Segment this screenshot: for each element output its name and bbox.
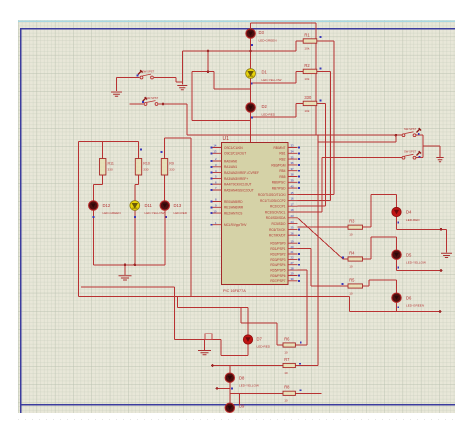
svg-text:36: 36 [291, 161, 295, 165]
svg-text:10: 10 [349, 264, 353, 268]
svg-text:RB5: RB5 [279, 175, 285, 179]
svg-text:RC7/RX/DT: RC7/RX/DT [269, 234, 286, 238]
svg-text:R7: R7 [284, 357, 290, 362]
svg-text:R8: R8 [284, 385, 290, 390]
svg-text:LED-RED: LED-RED [262, 113, 276, 117]
svg-text:SW-SPST: SW-SPST [404, 127, 417, 131]
svg-text:LED-RED: LED-RED [257, 345, 271, 349]
svg-text:10: 10 [284, 399, 288, 403]
svg-text:18: 18 [291, 208, 295, 212]
svg-text:R6: R6 [284, 336, 290, 341]
svg-text:LED-GREEN: LED-GREEN [103, 211, 121, 215]
svg-text:24: 24 [291, 220, 295, 224]
svg-text:D12: D12 [103, 203, 111, 208]
svg-text:RB1: RB1 [279, 152, 285, 156]
svg-text:RA5/AN4/SS/C2OUT: RA5/AN4/SS/C2OUT [224, 188, 254, 192]
svg-text:10: 10 [213, 209, 217, 213]
svg-text:D5: D5 [406, 253, 412, 258]
svg-text:RA3/AN3/VREF+: RA3/AN3/VREF+ [224, 177, 248, 181]
svg-text:RA2/AN2/VREF-/CVREF: RA2/AN2/VREF-/CVREF [224, 171, 259, 175]
svg-text:RC4/SDI/SDA: RC4/SDI/SDA [266, 216, 287, 220]
svg-text:OSC2/CLKOUT: OSC2/CLKOUT [224, 152, 246, 156]
svg-text:RD1/PSP1: RD1/PSP1 [270, 247, 285, 251]
svg-text:R4: R4 [349, 250, 355, 255]
svg-text:14: 14 [213, 144, 217, 148]
svg-text:D7: D7 [257, 336, 263, 341]
svg-text:RB6/PGC: RB6/PGC [272, 181, 287, 185]
svg-text:RD2/PSP2: RD2/PSP2 [270, 252, 285, 256]
svg-text:19: 19 [291, 239, 295, 243]
svg-text:D8: D8 [239, 376, 245, 381]
svg-text:10k: 10k [304, 109, 309, 113]
svg-text:RB0/INT: RB0/INT [273, 146, 285, 150]
svg-text:RB4: RB4 [279, 169, 285, 173]
svg-text:RC0/T1OSO/T1CKI: RC0/T1OSO/T1CKI [258, 193, 286, 197]
svg-text:21: 21 [291, 250, 295, 254]
svg-text:RB7/PGD: RB7/PGD [272, 187, 287, 191]
svg-text:D3: D3 [259, 30, 265, 35]
svg-text:D4: D4 [406, 210, 412, 215]
svg-text:28: 28 [291, 266, 295, 270]
svg-text:23: 23 [291, 214, 295, 218]
svg-text:22: 22 [291, 256, 295, 260]
svg-text:D2: D2 [262, 104, 268, 109]
svg-text:10: 10 [284, 371, 288, 375]
svg-text:34: 34 [291, 150, 295, 154]
svg-text:RC6/TX/CK: RC6/TX/CK [269, 228, 286, 232]
svg-text:RB2: RB2 [279, 158, 285, 162]
svg-text:LED-RED: LED-RED [406, 218, 420, 222]
svg-text:10k: 10k [304, 46, 309, 50]
svg-text:17: 17 [291, 202, 295, 206]
svg-text:RC5/SDO: RC5/SDO [272, 222, 287, 226]
svg-text:16: 16 [291, 197, 295, 201]
svg-text:LED-YELLOW: LED-YELLOW [145, 211, 165, 215]
svg-text:LED-GREEN: LED-GREEN [406, 304, 424, 308]
svg-text:R3: R3 [349, 219, 355, 224]
svg-text:10: 10 [284, 350, 288, 354]
svg-text:35: 35 [291, 155, 295, 159]
svg-text:330: 330 [304, 95, 312, 100]
svg-text:R9: R9 [169, 162, 174, 166]
svg-text:D11: D11 [145, 203, 153, 208]
svg-text:13: 13 [213, 150, 217, 154]
svg-text:RD0/PSP0: RD0/PSP0 [270, 242, 285, 246]
svg-text:40: 40 [291, 184, 295, 188]
svg-text:26: 26 [291, 231, 295, 235]
svg-text:R10: R10 [143, 162, 150, 166]
svg-text:RD3/PSP3: RD3/PSP3 [270, 258, 285, 262]
svg-text:330: 330 [143, 168, 148, 172]
svg-text:RC2/CCP1: RC2/CCP1 [270, 205, 286, 209]
svg-text:U1: U1 [223, 136, 230, 142]
svg-text:27: 27 [291, 261, 295, 265]
svg-text:10k: 10k [304, 77, 309, 81]
svg-text:D9: D9 [239, 404, 245, 409]
svg-text:RE1/AN6/WR: RE1/AN6/WR [224, 206, 244, 210]
svg-text:SW-SPST: SW-SPST [404, 150, 417, 154]
svg-text:LED-YELLOW: LED-YELLOW [239, 384, 259, 388]
svg-text:10: 10 [349, 233, 353, 237]
svg-text:D13: D13 [174, 203, 182, 208]
svg-text:20: 20 [291, 245, 295, 249]
svg-text:RA0/AN0: RA0/AN0 [224, 159, 237, 163]
svg-text:LED-YELLOW: LED-YELLOW [406, 261, 426, 265]
svg-text:37: 37 [291, 167, 295, 171]
svg-text:R2: R2 [304, 63, 310, 68]
svg-text:RE2/AN7/CS: RE2/AN7/CS [224, 212, 242, 216]
svg-text:10: 10 [349, 291, 353, 295]
svg-text:LED-YELLOW: LED-YELLOW [262, 78, 282, 82]
svg-text:R11: R11 [108, 162, 114, 166]
svg-text:LED-RED: LED-RED [174, 211, 188, 215]
svg-text:33: 33 [291, 144, 295, 148]
svg-text:D6: D6 [406, 296, 412, 301]
svg-text:RC1/T1OSI/CCP2: RC1/T1OSI/CCP2 [260, 199, 286, 203]
svg-text:SW-SPST: SW-SPST [142, 69, 155, 73]
svg-text:SW-SPST: SW-SPST [146, 96, 159, 100]
svg-text:15: 15 [291, 191, 295, 195]
svg-text:330: 330 [169, 168, 174, 172]
svg-text:R1: R1 [304, 32, 310, 37]
svg-text:LED-GREEN: LED-GREEN [259, 39, 277, 43]
svg-text:OSC1/CLKIN: OSC1/CLKIN [224, 146, 243, 150]
svg-text:29: 29 [291, 272, 295, 276]
svg-text:38: 38 [291, 173, 295, 177]
svg-text:39: 39 [291, 179, 295, 183]
svg-text:MCLR/Vpp/THV: MCLR/Vpp/THV [224, 223, 247, 227]
svg-text:330: 330 [108, 168, 113, 172]
svg-text:RC3/SCK/SCL: RC3/SCK/SCL [265, 210, 286, 214]
svg-text:RD6/PSP6: RD6/PSP6 [270, 274, 285, 278]
svg-text:PIC 16F877A: PIC 16F877A [223, 289, 246, 293]
svg-text:RD7/PSP7: RD7/PSP7 [270, 279, 285, 283]
svg-text:RA4/T0CKI/C1OUT: RA4/T0CKI/C1OUT [224, 183, 251, 187]
svg-text:30: 30 [291, 277, 295, 281]
svg-text:RB3/PGM: RB3/PGM [271, 163, 286, 167]
svg-text:RA1/AN1: RA1/AN1 [224, 165, 237, 169]
svg-text:25: 25 [291, 226, 295, 230]
svg-text:RD4/PSP4: RD4/PSP4 [270, 263, 285, 267]
svg-text:RD5/PSP5: RD5/PSP5 [270, 269, 285, 273]
svg-text:RE0/AN5/RD: RE0/AN5/RD [224, 200, 243, 204]
svg-text:R5: R5 [349, 277, 355, 282]
svg-text:D1: D1 [262, 70, 268, 75]
